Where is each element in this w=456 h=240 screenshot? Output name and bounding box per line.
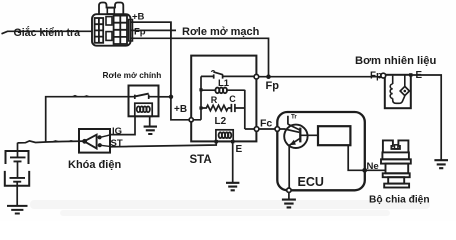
faint scan smudge bottom — [30, 200, 430, 209]
svg-text:+B: +B — [132, 12, 145, 23]
svg-text:Fp: Fp — [266, 80, 280, 92]
distributor stem — [388, 177, 404, 183]
check connector left pin grid — [95, 18, 104, 43]
main relay switch contact — [129, 95, 159, 99]
transistor emitter arrow — [289, 140, 296, 145]
ground ECU — [282, 200, 296, 208]
main relay coil winding — [137, 106, 150, 112]
wire Fp run under label to Fp node — [171, 38, 269, 76]
svg-text:C: C — [229, 94, 236, 104]
wire main relay output to +B riser — [159, 96, 172, 98]
distributor base — [384, 184, 409, 188]
distributor mid body — [386, 164, 409, 174]
node ECU ground circle — [287, 188, 291, 192]
capacitor C — [228, 104, 245, 112]
svg-text:Fp: Fp — [134, 27, 146, 38]
transistor collector — [288, 116, 300, 131]
transistor base bar — [299, 128, 301, 143]
wire Fp horizontal to fuel pump — [259, 76, 384, 78]
wire Fp stub inside jumper box — [131, 29, 177, 31]
circuit opening relay box — [191, 56, 256, 142]
svg-text:Fc: Fc — [260, 118, 272, 130]
wire ECU to ground — [288, 192, 290, 199]
check connector right pin grid — [114, 16, 127, 44]
svg-text:Bơm nhiên liệu: Bơm nhiên liệu — [355, 55, 436, 67]
wire +B from connector, down to relay area — [131, 22, 202, 120]
distributor cap crown — [383, 140, 409, 152]
check connector body — [92, 14, 133, 46]
distributor collar lower — [383, 173, 410, 177]
inner right vertical wire — [244, 90, 246, 129]
node Fp junction dot — [266, 74, 271, 79]
coil L1 leads — [201, 89, 245, 91]
check connector top handle — [99, 3, 123, 15]
ignition contact leads — [100, 135, 110, 147]
node L1 left — [199, 88, 202, 91]
wire battery drop — [17, 143, 19, 158]
node E — [231, 140, 234, 143]
coil L1 winding — [215, 88, 227, 94]
wire transistor to block — [300, 134, 318, 136]
svg-text:L2: L2 — [215, 116, 227, 127]
wire pump E to right ground — [411, 75, 441, 160]
pump diamond dot — [404, 90, 407, 93]
wire E to ground — [232, 142, 234, 182]
svg-text:E: E — [236, 144, 243, 155]
ground main relay — [144, 127, 157, 134]
wire block to Ne terminal — [348, 145, 365, 170]
ground right — [434, 160, 448, 168]
pump coil bottom lead — [393, 96, 405, 103]
node ignition input dot — [82, 139, 87, 144]
svg-text:STA: STA — [190, 154, 212, 166]
svg-text:Tr: Tr — [291, 114, 297, 121]
svg-text:ECU: ECU — [298, 175, 324, 189]
inner left vertical wire — [200, 76, 202, 119]
terminal Fp circle — [254, 74, 259, 79]
node E pump — [409, 73, 412, 76]
battery cell 1 bracket — [6, 151, 29, 164]
svg-text:+B: +B — [174, 104, 187, 115]
distributor collar upper — [381, 159, 411, 163]
pump diamond lead — [404, 75, 406, 87]
node A battery bus — [18, 141, 86, 143]
wire relay coil to ground — [149, 116, 151, 126]
pump motor diamond — [400, 86, 409, 95]
relay switch curl — [211, 71, 214, 72]
node STA/L2 — [215, 140, 218, 143]
wire battery to ground — [16, 182, 18, 206]
svg-text:Ne: Ne — [367, 161, 379, 172]
pump coil winding — [390, 84, 393, 98]
svg-text:Giắc kiểm tra: Giắc kiểm tra — [14, 26, 81, 39]
transistor Tr circle — [284, 125, 307, 148]
coil L2 box — [216, 130, 233, 142]
distributor cap body — [382, 152, 409, 159]
battery link stub — [17, 161, 19, 178]
wire Fc row — [245, 129, 299, 132]
svg-text:ST: ST — [111, 138, 123, 149]
node +B entry circle — [189, 118, 193, 122]
wire ST from ignition switch to STA — [110, 142, 216, 147]
check connector middle pins — [106, 17, 112, 41]
battery cell 1 plates — [10, 157, 26, 161]
pump coil lead — [392, 76, 394, 84]
terminal Fc circle on ECU — [275, 127, 280, 132]
resistor R — [201, 105, 228, 110]
relay switch contact — [201, 74, 254, 78]
wire wiggle marks on relay feed — [72, 96, 89, 97]
node R left — [199, 106, 202, 109]
main relay box — [129, 86, 159, 117]
wire IG from ignition switch to relay coil — [110, 116, 135, 134]
ignition switch contact triangle — [84, 135, 96, 149]
svg-text:L1: L1 — [218, 78, 230, 89]
svg-text:E: E — [416, 70, 423, 81]
ignition switch box — [79, 129, 110, 153]
wire Ne to distributor — [365, 169, 386, 171]
ground battery — [7, 206, 28, 214]
wire riser to main relay — [46, 97, 129, 142]
svg-text:IG: IG — [112, 126, 122, 137]
main relay coil box — [135, 103, 152, 116]
fuel pump box — [385, 75, 411, 108]
Fp jumper box at connector — [131, 22, 171, 38]
ignition contact dots — [98, 135, 102, 139]
wire from left edge to check connector — [2, 31, 93, 34]
battery cell 2 bracket — [5, 171, 29, 186]
svg-text:R: R — [211, 95, 218, 105]
ECU block rectangle — [318, 126, 350, 145]
svg-text:Rơle mở chính: Rơle mở chính — [103, 70, 162, 80]
coil L2 winding — [219, 132, 232, 138]
distributor center post — [395, 145, 398, 149]
wire wiggle marks on bus — [52, 141, 74, 142]
ECU box — [277, 112, 365, 190]
battery cell 2 plates — [10, 178, 26, 182]
svg-text:Rơle mở mạch: Rơle mở mạch — [182, 26, 260, 38]
transistor emitter — [289, 138, 300, 190]
node Ne dot — [362, 168, 367, 173]
terminal Fc circle on relay — [254, 127, 259, 132]
svg-text:Fp: Fp — [370, 71, 382, 82]
svg-text:Khóa điện: Khóa điện — [68, 159, 121, 171]
terminal Fp circle pump — [381, 73, 386, 78]
ground E — [226, 183, 239, 191]
node junction dot main relay output — [169, 95, 173, 99]
